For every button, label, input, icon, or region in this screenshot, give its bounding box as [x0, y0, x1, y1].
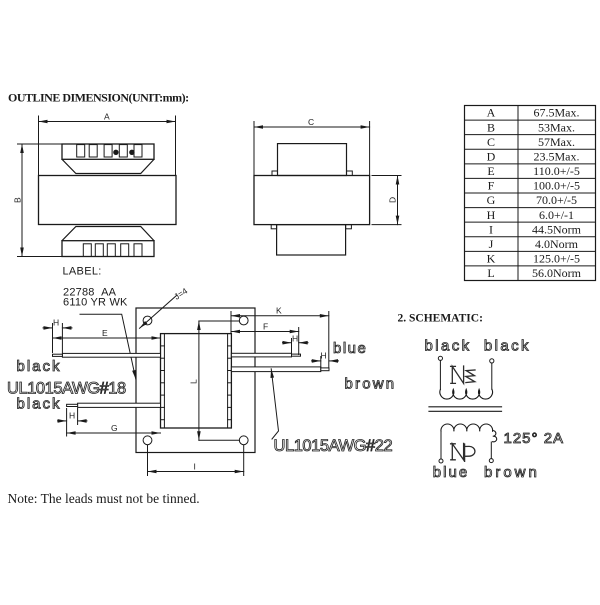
svg-text:I: I	[194, 462, 196, 472]
svg-text:D: D	[388, 197, 398, 203]
svg-text:6110 YR WK: 6110 YR WK	[63, 297, 128, 309]
dimension table frame	[465, 106, 596, 281]
svg-text:6.0+/-1: 6.0+/-1	[539, 208, 574, 222]
side view: core lamination block	[254, 176, 370, 225]
winding label Ns	[451, 366, 475, 383]
front view: terminal slots bottom	[83, 244, 142, 257]
svg-text:H: H	[53, 318, 59, 328]
label leader line	[80, 314, 136, 379]
svg-text:J=4: J=4	[172, 286, 189, 302]
dimension E	[53, 328, 161, 338]
secondary lead terminal left	[438, 356, 442, 360]
mounting plate	[136, 308, 255, 453]
svg-text:brown: brown	[484, 464, 540, 481]
dimension H top-left	[43, 318, 72, 353]
mounting hole bottom-left	[143, 436, 152, 445]
svg-text:K: K	[487, 252, 496, 266]
transformer body outline (plan)	[161, 334, 232, 428]
secondary lead terminal right	[490, 359, 494, 363]
svg-text:E: E	[102, 328, 108, 338]
svg-text:70.0+/-5: 70.0+/-5	[536, 193, 577, 207]
svg-text:H: H	[321, 351, 327, 361]
svg-text:F: F	[488, 179, 495, 193]
secondary lead wire right	[491, 363, 493, 389]
primary lead wire right	[490, 442, 492, 459]
svg-text:A: A	[104, 112, 110, 122]
svg-text:black: black	[425, 338, 472, 355]
stripped end brown	[321, 368, 329, 371]
secondary lead wire left	[439, 361, 441, 390]
wire black top-left	[62, 353, 160, 357]
svg-text:Note: The leads must not be ti: Note: The leads must not be tinned.	[8, 491, 200, 506]
svg-text:blue: blue	[333, 340, 367, 357]
right lamination strip ticks	[228, 346, 232, 420]
side view: bottom bobbin tabs	[271, 225, 276, 229]
dimension K	[231, 306, 329, 369]
leader J=4 to mounting hole	[140, 286, 190, 329]
dimension H brown	[312, 351, 339, 368]
svg-text:F: F	[263, 322, 268, 332]
svg-text:53Max.: 53Max.	[538, 120, 575, 134]
svg-text:56.0Norm: 56.0Norm	[532, 266, 582, 280]
svg-text:125° 2A: 125° 2A	[504, 430, 565, 447]
svg-text:100.0+/-5: 100.0+/-5	[533, 179, 580, 193]
dimension G	[67, 423, 161, 433]
winding Ns coil	[440, 389, 493, 399]
svg-text:44.5Norm: 44.5Norm	[532, 222, 582, 236]
stripped end blue	[292, 354, 301, 356]
primary lead terminal left	[439, 459, 443, 463]
core bars	[429, 406, 502, 408]
front view: dimension A	[39, 112, 176, 176]
svg-text:I: I	[489, 222, 493, 236]
winding label Np	[451, 443, 475, 461]
svg-text:67.5Max.: 67.5Max.	[534, 106, 580, 120]
svg-text:brown: brown	[345, 376, 397, 393]
svg-text:black: black	[484, 338, 531, 355]
dimension I	[148, 446, 244, 476]
svg-text:4.0Norm: 4.0Norm	[535, 237, 579, 251]
dimension L	[189, 321, 240, 440]
svg-text:J: J	[489, 237, 494, 251]
svg-text:57Max.: 57Max.	[538, 135, 575, 149]
stripped end bottom-left	[67, 404, 78, 406]
svg-text:C: C	[487, 135, 495, 149]
svg-text:C: C	[308, 117, 314, 127]
front view: dimension B	[13, 144, 63, 257]
primary lead terminal right	[489, 459, 493, 463]
front view: top coil trapezoid	[62, 159, 154, 173]
svg-text:LABEL:: LABEL:	[63, 266, 102, 278]
svg-text:D: D	[487, 149, 496, 163]
svg-text:B: B	[487, 120, 495, 134]
winding Np coil	[441, 424, 493, 431]
front view: core lamination block	[39, 176, 177, 225]
svg-text:H: H	[69, 411, 75, 421]
svg-text:H: H	[292, 334, 298, 344]
left lamination strip ticks	[161, 346, 165, 420]
mounting hole bottom-right	[239, 436, 248, 445]
svg-text:B: B	[13, 197, 23, 203]
mounting hole top-right	[239, 316, 248, 325]
dimension H blue	[283, 334, 309, 354]
svg-text:OUTLINE DIMENSION(UNIT:mm):: OUTLINE DIMENSION(UNIT:mm):	[8, 91, 189, 105]
leader for UL1015AWG#22	[271, 369, 278, 439]
side view: dimension C	[254, 117, 370, 176]
dimension F	[231, 322, 299, 355]
svg-text:125.0+/-5: 125.0+/-5	[533, 252, 580, 266]
wire blue right	[231, 353, 291, 357]
front view: bottom bobbin flange	[62, 241, 154, 257]
front view: terminal slots top	[77, 145, 142, 157]
svg-text:K: K	[276, 306, 282, 316]
front view: rivet dots	[113, 150, 118, 155]
side view: top bobbin	[278, 144, 347, 176]
primary lead wire left	[440, 431, 442, 459]
wire black bottom-left	[78, 403, 161, 407]
stripped end top-left	[53, 354, 63, 356]
svg-text:2. SCHEMATIC:: 2. SCHEMATIC:	[398, 313, 483, 325]
thermal fuse squiggle	[493, 430, 497, 441]
svg-text:110.0+/-5: 110.0+/-5	[533, 164, 580, 178]
svg-text:L: L	[487, 266, 494, 280]
bobbin flange line right	[227, 334, 229, 428]
svg-text:G: G	[487, 193, 496, 207]
side view: dimension D	[372, 176, 401, 225]
bobbin flange line left	[163, 334, 165, 428]
front view: top bobbin flange	[62, 144, 154, 159]
mounting hole top-left	[143, 316, 152, 325]
side view: top bobbin tabs	[272, 171, 278, 176]
side view: bottom bobbin	[277, 225, 346, 255]
svg-text:G: G	[111, 423, 118, 433]
svg-text:23.5Max.: 23.5Max.	[534, 149, 580, 163]
svg-text:H: H	[487, 208, 496, 222]
front view: bottom coil trapezoid	[62, 227, 154, 241]
svg-text:black: black	[17, 358, 62, 375]
svg-text:black: black	[17, 396, 62, 413]
svg-text:A: A	[487, 106, 496, 120]
svg-text:UL1015AWG#22: UL1015AWG#22	[274, 437, 393, 455]
dimension H bottom-left	[58, 409, 88, 437]
svg-text:E: E	[487, 164, 494, 178]
svg-text:blue: blue	[433, 464, 469, 481]
svg-text:L: L	[189, 379, 199, 384]
wire brown right	[231, 367, 320, 372]
